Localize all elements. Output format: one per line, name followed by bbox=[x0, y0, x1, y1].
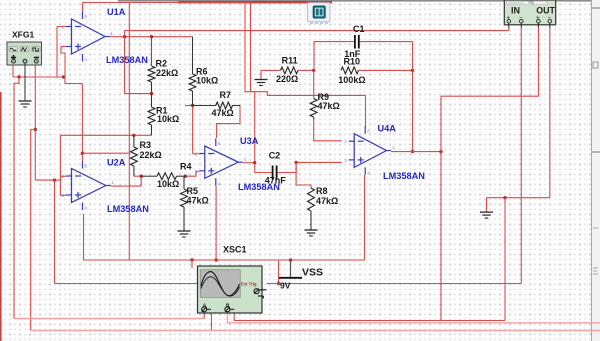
wire: R3 bottom corner to node bbox=[134, 175, 143, 178]
op-amp U2A bbox=[62, 161, 115, 211]
svg-text:10kΩ: 10kΩ bbox=[157, 179, 179, 189]
floating bus icon button bbox=[308, 3, 331, 23]
wire: bottom pink line y=330.5 bbox=[31, 330, 600, 332]
wire: C1 right lead and riser bbox=[359, 42, 413, 71]
wire: drop to scope left pin bbox=[191, 260, 193, 268]
ground below XFG1 bbox=[19, 63, 32, 107]
resistor R5 bbox=[181, 176, 188, 231]
wire: U2A V- drop to scope row bbox=[83, 214, 85, 260]
wire: U3A V- drop to scope row bbox=[214, 186, 217, 262]
wire: XFG1 minus terminal drop x=35.3 bbox=[34, 64, 37, 180]
op-amp U3A bbox=[195, 139, 247, 187]
wire: node to C2 left plate bbox=[255, 172, 273, 174]
resistor R8 bbox=[308, 188, 315, 230]
svg-text:47kΩ: 47kΩ bbox=[318, 101, 340, 111]
svg-text:10kΩ: 10kΩ bbox=[157, 114, 179, 124]
wire: R11 right to R9/R10 node bbox=[298, 69, 315, 72]
wire: R10 right lead to node bbox=[359, 69, 415, 72]
wire: drop x=441 to bottom line bbox=[440, 152, 442, 321]
wire: U2A output to R3/R4 node bbox=[110, 176, 141, 186]
svg-text:47kΩ: 47kΩ bbox=[212, 108, 234, 118]
svg-text:R7: R7 bbox=[220, 90, 232, 100]
svg-text:R3: R3 bbox=[140, 140, 152, 150]
resistor R3 bbox=[131, 135, 138, 176]
wire: R2 top lead from output net bbox=[151, 37, 153, 66]
svg-text:R11: R11 bbox=[282, 56, 298, 66]
wire: right ground stem bbox=[486, 198, 488, 212]
svg-text:U1A: U1A bbox=[107, 7, 126, 17]
wire: scope A- stub riser bbox=[211, 310, 213, 331]
wire: output branch down x=124.5 to R2 node bbox=[125, 31, 152, 94]
resistor R6 bbox=[189, 37, 196, 106]
wire: U4A V- corner down from scope row bbox=[364, 175, 366, 260]
function generator XFG1 bbox=[7, 42, 42, 65]
svg-text:LM358AN: LM358AN bbox=[383, 171, 425, 181]
resistor R9 bbox=[310, 99, 317, 119]
wire: U2A V+ node east to VCC rail bbox=[82, 152, 129, 154]
wire: U1A minus input drop bbox=[57, 27, 66, 78]
left screen-edge wire bbox=[0, 92, 2, 341]
wire: scope row horizontal y=260 bbox=[84, 258, 365, 261]
wire: down x=60.4 into U2A plus bbox=[60, 135, 66, 195]
svg-text:22kΩ: 22kΩ bbox=[140, 150, 162, 160]
capacitor C1 bbox=[355, 35, 359, 49]
wire: C2 right to U4A plus node bbox=[277, 161, 342, 173]
svg-text:C1: C1 bbox=[353, 24, 365, 34]
capacitor C2 bbox=[273, 166, 277, 180]
svg-text:IN: IN bbox=[511, 6, 520, 16]
wire: node down to R9 top bbox=[313, 70, 315, 98]
wire: OUT- drop and ground run bbox=[487, 27, 550, 199]
wire: drop x=505 to bottom line bbox=[504, 198, 506, 321]
wire: long horizontal to IN+ terminal y=30.6 bbox=[125, 30, 509, 32]
svg-text:Ext Trig: Ext Trig bbox=[241, 281, 257, 286]
wire: C1 left riser bbox=[314, 42, 355, 71]
wire: U4A output line bbox=[391, 150, 443, 153]
ground below R8 bbox=[305, 230, 318, 236]
wire: scope B drop and line y=322.8 bbox=[227, 312, 600, 323]
svg-text:LM358AN: LM358AN bbox=[107, 204, 149, 214]
svg-text:R5: R5 bbox=[187, 186, 199, 196]
ground below R5 bbox=[178, 231, 191, 237]
wire: U1A V+ pin to top rail bbox=[83, 3, 130, 13]
resistor R1 bbox=[148, 94, 155, 136]
svg-text:R4: R4 bbox=[180, 162, 192, 172]
svg-text:U2A: U2A bbox=[107, 158, 126, 168]
resistor R11 bbox=[281, 67, 299, 74]
svg-text:10kΩ: 10kΩ bbox=[196, 76, 218, 86]
svg-text:100kΩ: 100kΩ bbox=[338, 75, 365, 85]
op-amp U1A bbox=[62, 12, 114, 63]
resistor R4 bbox=[141, 173, 185, 180]
wire: scope A line y=318.5 bbox=[14, 312, 204, 319]
svg-text:U3A: U3A bbox=[240, 136, 259, 146]
right side panel strip bbox=[592, 0, 600, 341]
wire: U4A V+ riser bbox=[365, 95, 367, 127]
resistor R2 bbox=[148, 66, 155, 95]
wire: node down to R8 bbox=[296, 162, 311, 188]
wire: VCC branch x=245 from top corner bbox=[245, 3, 366, 96]
wire: R11 left lead bbox=[261, 69, 281, 71]
wire: rail x=250.5 from top down to C2 node bbox=[251, 2, 255, 173]
svg-text:47nF: 47nF bbox=[265, 176, 287, 186]
svg-text:XSC1: XSC1 bbox=[223, 245, 247, 255]
wire: x=82.4 down to U2A V+ node bbox=[81, 84, 84, 162]
wire: IN+ terminal drop bbox=[508, 27, 510, 31]
wire: R7 right feedback to U3A V+ pin bbox=[217, 106, 240, 139]
svg-text:1nF: 1nF bbox=[344, 49, 361, 59]
oscilloscope XSC1 bbox=[198, 266, 267, 313]
resistor R10 bbox=[341, 67, 359, 74]
svg-text:OUT: OUT bbox=[536, 6, 555, 16]
svg-text:22kΩ: 22kΩ bbox=[156, 68, 178, 78]
wire: IN- long drop to VSS row bbox=[520, 27, 522, 284]
top window edge line bbox=[118, 0, 600, 2]
wire: feedback node drop to output line bbox=[411, 70, 414, 153]
svg-text:U4A: U4A bbox=[378, 124, 397, 134]
connector block IN OUT bbox=[504, 0, 555, 28]
svg-text:C2: C2 bbox=[269, 151, 281, 161]
wire: top corner horizontal y=2.5 bbox=[129, 2, 245, 4]
VSS power symbol bbox=[279, 261, 302, 278]
wire: R11 ground stem riser bbox=[260, 70, 262, 79]
wire: step down to rail x=14 bbox=[14, 77, 19, 319]
wire: U1A output net y=36.7 bbox=[110, 35, 193, 38]
resistor R7 bbox=[193, 102, 240, 109]
wire: drop x=278.5 to VSS row bbox=[277, 260, 280, 285]
wire: R1 bottom west run y=135.3 bbox=[60, 134, 151, 137]
svg-text:R8: R8 bbox=[316, 186, 328, 196]
wire: R4 node to U3A plus input bbox=[184, 172, 200, 178]
wire: R9 bottom to U4A minus bbox=[314, 119, 342, 141]
wire: VSS row left segment to scope bbox=[55, 283, 199, 285]
svg-text:220Ω: 220Ω bbox=[276, 74, 298, 84]
svg-text:VSS: VSS bbox=[302, 267, 323, 279]
svg-text:R2: R2 bbox=[156, 59, 168, 69]
wire: XFG1 plus terminal to U1A input bus y=77 bbox=[13, 64, 65, 79]
ground right area bbox=[480, 212, 493, 218]
wire: VSS row east segment to IN- drop bbox=[267, 283, 522, 285]
wire: VCC rail x=129.3 bbox=[128, 3, 130, 261]
wire: R7 left node stub bbox=[185, 104, 194, 107]
wire: U3A minus riser to R6/R7 node bbox=[193, 106, 200, 154]
svg-text:47kΩ: 47kΩ bbox=[187, 196, 209, 206]
wire: U3A output to node bbox=[243, 161, 257, 164]
wire: branch to rail x=30.7 bottom line bbox=[31, 130, 36, 331]
wire: drop x=54.5 to VSS row bbox=[54, 180, 56, 283]
wire: U1A plus input jog down to V+ feed bbox=[61, 47, 82, 84]
wire: U2A minus net y=180.1 bbox=[35, 176, 66, 182]
top red wire running off-screen bbox=[178, 1, 332, 3]
wire: OUT+ loop bbox=[441, 27, 538, 152]
svg-text:XFG1: XFG1 bbox=[12, 30, 34, 40]
svg-text:9V: 9V bbox=[280, 281, 291, 291]
ground left of R11 bbox=[255, 80, 268, 86]
wire: scope B- stub line y=320.5 bbox=[234, 310, 505, 321]
op-amp U4A bbox=[344, 126, 395, 175]
svg-text:LM358AN: LM358AN bbox=[106, 55, 148, 65]
svg-text:47kΩ: 47kΩ bbox=[316, 196, 338, 206]
